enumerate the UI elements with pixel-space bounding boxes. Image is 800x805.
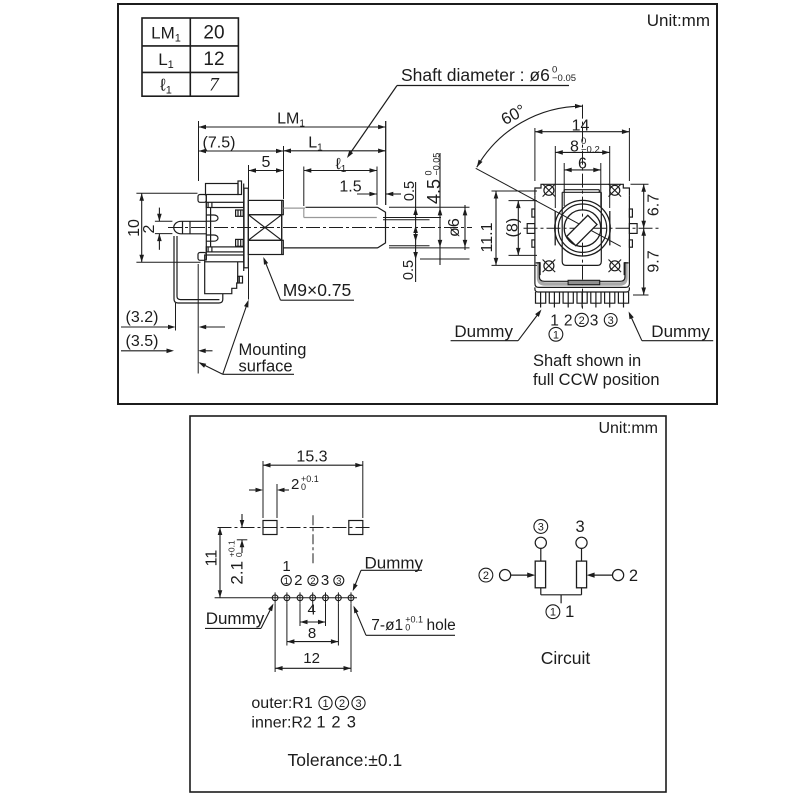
dim (3.5) [121, 333, 213, 353]
svg-text:2: 2 [291, 476, 299, 493]
shaft flat line [304, 217, 377, 219]
dim 11.1 [479, 191, 537, 265]
front body base plate [535, 287, 630, 292]
svg-text:9.7: 9.7 [646, 250, 663, 272]
svg-text:Unit:mm: Unit:mm [598, 420, 658, 437]
extension line thread start [248, 165, 250, 199]
wiper pin upper [206, 215, 218, 221]
svg-text:1: 1 [284, 576, 289, 587]
circuit wire R2 top [581, 548, 583, 561]
circuit terminal circle R2 top [576, 537, 587, 548]
svg-text:full CCW position: full CCW position [533, 371, 660, 389]
dim 10 extension lines [136, 192, 197, 194]
wiper pin lower [206, 235, 218, 241]
svg-text:Mounting: Mounting [239, 341, 307, 359]
svg-text:2: 2 [629, 567, 638, 585]
pcb hole row line [215, 597, 357, 599]
svg-text:−0.2: −0.2 [581, 144, 600, 155]
front skirt gray band [539, 262, 627, 284]
front pin labels [549, 313, 617, 342]
resistor code note inner [251, 714, 355, 732]
bushing end face [281, 200, 283, 254]
rivet A [236, 210, 244, 216]
bushing flat right [609, 211, 611, 245]
svg-text:3: 3 [590, 313, 599, 330]
pcb square hole right [349, 521, 363, 535]
dim 2 tol extension line [276, 484, 278, 518]
dim 2 with tolerance [249, 474, 319, 493]
circuit bottom wires [541, 588, 582, 604]
table row LM1 = 20 [151, 23, 224, 45]
bushing threaded section M9 [248, 215, 281, 241]
extension flat second line [383, 219, 430, 221]
svg-text:12: 12 [203, 49, 224, 70]
circuit terminal circle wiper left [500, 570, 511, 581]
pcb hole leader lines [275, 603, 351, 672]
svg-text:11: 11 [204, 550, 221, 567]
svg-text:6: 6 [578, 156, 587, 173]
svg-text:ø6: ø6 [446, 218, 463, 237]
svg-text:inner:R2: inner:R2 [251, 715, 312, 732]
dummy label right [629, 312, 714, 342]
svg-text:−0.05: −0.05 [552, 73, 576, 84]
body top block [206, 181, 242, 195]
svg-text:Circuit: Circuit [541, 648, 591, 668]
svg-text:M9×0.75: M9×0.75 [283, 280, 352, 300]
dim 5 [249, 154, 284, 173]
pcb dummy left [205, 604, 274, 629]
front skirt inner line [539, 262, 625, 281]
svg-text:(8): (8) [505, 218, 522, 238]
svg-text:2: 2 [579, 315, 585, 327]
bushing inner circle [558, 204, 606, 252]
dummy label left [451, 310, 542, 342]
svg-text:(3.5): (3.5) [126, 333, 159, 350]
svg-text:3: 3 [608, 315, 614, 327]
svg-text:0.5: 0.5 [402, 181, 418, 201]
svg-text:0: 0 [405, 623, 410, 633]
svg-text:3: 3 [576, 518, 585, 536]
bushing flat left [554, 211, 556, 245]
front corner bracket bottom-right [624, 263, 628, 275]
circuit wiper arrow left [511, 573, 536, 578]
svg-text:2: 2 [141, 224, 158, 233]
circuit terminal circle wiper right [613, 570, 624, 581]
bushing outer circle [555, 200, 611, 256]
svg-text:Dummy: Dummy [206, 609, 265, 628]
dim 8 with tolerance [555, 136, 609, 156]
dim 8 pcb [287, 625, 339, 644]
extension line shaft tip [385, 121, 387, 205]
shaft slot [567, 215, 597, 245]
extension flat top right [383, 217, 441, 219]
dim 6 extension lines [563, 163, 565, 206]
circuit terminal 2 outer label [479, 568, 493, 582]
svg-text:7: 7 [209, 75, 220, 96]
dim 4 [300, 602, 326, 625]
dim 0.5 bottom [401, 234, 418, 280]
dim 4.5 line [423, 153, 444, 265]
thread callout M9x0.75 [263, 257, 354, 300]
extension shaft top right [389, 206, 470, 208]
circuit wiper arrow right [587, 573, 613, 578]
circuit wire R1 top [540, 548, 542, 561]
svg-text:Tolerance:±0.1: Tolerance:±0.1 [288, 750, 403, 770]
dim LM1 extension lines [198, 121, 200, 181]
dim 8 extension lines [554, 146, 556, 208]
dim 9.7 [641, 228, 662, 295]
svg-text:1: 1 [282, 558, 290, 575]
dim 12 [275, 650, 351, 671]
resistor R2 [577, 561, 587, 588]
rear pin [174, 221, 206, 234]
dim 2 extension lines [155, 220, 173, 222]
bottom panel frame [190, 416, 666, 792]
svg-text:3: 3 [347, 714, 356, 732]
svg-text:1.5: 1.5 [339, 179, 361, 196]
svg-text:1: 1 [316, 714, 325, 732]
svg-text:2: 2 [310, 576, 315, 587]
svg-text:20: 20 [203, 23, 224, 44]
extension line chamfer start [376, 167, 378, 206]
circuit terminal circle R1 top [535, 537, 546, 548]
pcb horizontal centerline [218, 527, 370, 529]
dim 2.1 with tolerance [226, 514, 246, 585]
svg-text:1: 1 [565, 603, 574, 621]
svg-text:2: 2 [294, 572, 302, 589]
svg-text:2: 2 [331, 714, 340, 732]
dim 14 [535, 118, 630, 135]
svg-text:Shaft diameter : ø6: Shaft diameter : ø6 [401, 65, 550, 85]
dim 6.7 [641, 184, 662, 295]
parameter table [142, 18, 238, 96]
dim 0.5 top [402, 181, 418, 282]
dim 15.3 [263, 449, 363, 468]
svg-text:surface: surface [239, 358, 293, 376]
dim 10 [126, 193, 144, 262]
extension shaft bottom right [389, 247, 470, 249]
body lower band [206, 247, 243, 252]
svg-text:5: 5 [262, 154, 271, 171]
bushing lower section [248, 240, 283, 254]
pcb dummy right [353, 554, 424, 592]
screw top-right [609, 184, 622, 197]
front body outline [535, 184, 630, 287]
svg-text:15.3: 15.3 [296, 449, 327, 466]
svg-text:4.5: 4.5 [424, 179, 444, 204]
dim (7.5) [199, 135, 284, 154]
bushing upper section [248, 200, 283, 214]
svg-text:3: 3 [321, 572, 329, 589]
svg-text:14: 14 [572, 118, 590, 135]
shaft tip [377, 207, 385, 248]
side view centerline [168, 227, 472, 229]
dim (3.2) [121, 309, 225, 329]
resistor R1 [535, 561, 545, 588]
pcb square hole left [263, 521, 277, 535]
dim 1.5 [339, 179, 401, 197]
dim diameter 6 [446, 205, 467, 250]
svg-text:3: 3 [355, 698, 361, 710]
body upper terminal lug [198, 195, 206, 203]
shaft flat start edge [303, 208, 305, 217]
svg-text:hole: hole [427, 617, 456, 634]
bent terminal wire [174, 236, 223, 303]
svg-text:8: 8 [308, 625, 316, 642]
svg-text:6.7: 6.7 [646, 194, 663, 216]
extension line bushing end [283, 146, 285, 199]
svg-text:11.1: 11.1 [479, 222, 496, 252]
shaft bottom edge [283, 247, 378, 249]
extension line wire leg [175, 303, 177, 331]
svg-text:1: 1 [322, 698, 328, 710]
svg-text:outer:R1: outer:R1 [251, 695, 312, 712]
screw bottom-right [609, 260, 622, 273]
circuit terminal 1 outer label [546, 605, 560, 619]
svg-text:4: 4 [308, 602, 316, 619]
right side tab [629, 209, 637, 247]
svg-text:1: 1 [550, 607, 556, 619]
front view horizontal centerline [524, 227, 660, 229]
table row l1 = 7 [159, 75, 220, 97]
dim 6 [564, 156, 601, 173]
front skirt center bar [568, 280, 600, 284]
svg-text:Dummy: Dummy [454, 322, 513, 341]
screw top-left [543, 184, 556, 197]
table row L1 = 12 [158, 49, 224, 71]
svg-text:Dummy: Dummy [365, 554, 424, 573]
pcb vertical centerline [312, 515, 314, 566]
dim 14 extension lines [534, 128, 536, 181]
svg-text:7-ø1: 7-ø1 [371, 617, 403, 634]
body upper band [206, 202, 243, 207]
pcb holes [272, 592, 354, 603]
svg-text:Unit:mm: Unit:mm [647, 11, 710, 30]
extension line flat start [303, 167, 305, 207]
svg-text:(3.2): (3.2) [126, 309, 159, 326]
dim (8) [505, 201, 538, 256]
svg-text:Shaft shown in: Shaft shown in [533, 352, 641, 370]
hole size callout [354, 606, 456, 636]
extension lower right [420, 258, 470, 260]
pcb pin labels [281, 558, 344, 589]
mounting surface extension line [248, 258, 250, 300]
svg-text:Dummy: Dummy [651, 322, 710, 341]
inner frame [562, 190, 601, 266]
bushing flange [244, 188, 248, 268]
shaft top edge [283, 206, 377, 209]
svg-text:0: 0 [234, 552, 244, 557]
left side tab [527, 209, 535, 247]
screw bottom-left [543, 260, 556, 273]
dim LM1 [199, 111, 386, 130]
terminal comb [536, 292, 629, 308]
shaft position note [533, 352, 660, 389]
svg-text:12: 12 [303, 650, 320, 667]
shaft circle [564, 210, 601, 247]
dim 15.3 extension lines [262, 461, 264, 518]
shaft diameter callout [347, 65, 576, 158]
top panel frame [118, 4, 717, 404]
front view vertical centerline [582, 105, 584, 309]
body lower housing [205, 262, 243, 294]
body lower terminal lug [198, 253, 206, 261]
svg-text:(7.5): (7.5) [203, 135, 236, 152]
body main outline [206, 184, 243, 272]
dim 2.1 extension tick [237, 539, 248, 541]
dim 2 [141, 208, 162, 250]
rivet B [236, 239, 244, 246]
svg-text:0.5: 0.5 [401, 260, 417, 280]
svg-text:0: 0 [301, 482, 306, 492]
circuit terminal 3 outer label [534, 520, 548, 534]
mounting surface label [199, 300, 307, 376]
svg-text:2: 2 [564, 313, 573, 330]
60 degree arc [477, 101, 583, 167]
svg-text:8: 8 [570, 139, 579, 156]
svg-text:2: 2 [339, 698, 345, 710]
60 degree construction line [476, 168, 621, 246]
dim L1 [284, 135, 386, 154]
dim 6.7 and 9.7 extension lines [631, 183, 649, 185]
extension mid right [389, 245, 430, 247]
dim l1 [304, 156, 377, 175]
front corner bracket bottom-left [536, 263, 540, 275]
svg-text:2: 2 [483, 570, 489, 582]
body bottom band [205, 255, 244, 262]
svg-text:3: 3 [336, 576, 341, 587]
svg-text:−0.05: −0.05 [431, 153, 441, 176]
svg-text:1: 1 [553, 329, 559, 341]
resistor code note outer [251, 695, 365, 712]
svg-text:2.1: 2.1 [228, 561, 247, 585]
extension line body left face [197, 264, 199, 374]
dim 11 [204, 528, 223, 598]
svg-text:3: 3 [538, 521, 544, 533]
